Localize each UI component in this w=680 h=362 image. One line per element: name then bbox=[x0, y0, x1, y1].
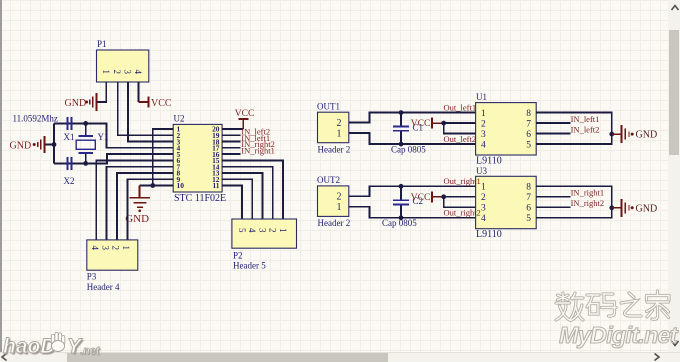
svg-text:IN_left2: IN_left2 bbox=[571, 124, 600, 134]
svg-text:1: 1 bbox=[101, 70, 111, 75]
net label IN_right1 bbox=[571, 188, 605, 198]
svg-text:GND: GND bbox=[10, 140, 32, 151]
wire OUT1 pin2 to U1 pin1 net Out_left1 bbox=[349, 113, 476, 123]
svg-text:Out_left1: Out_left1 bbox=[444, 102, 477, 112]
svg-text:VCC: VCC bbox=[235, 109, 255, 119]
net label IN_left2 bbox=[571, 124, 600, 134]
node junction GND tap U3 bbox=[609, 205, 614, 210]
svg-text:2: 2 bbox=[268, 228, 278, 233]
svg-text:P1: P1 bbox=[97, 39, 107, 49]
svg-text:GND: GND bbox=[65, 98, 87, 109]
capacitor X2 bbox=[64, 157, 75, 186]
net label IN_left2 bbox=[241, 127, 270, 137]
svg-text:IN_left1: IN_left1 bbox=[571, 114, 600, 124]
svg-text:IN_right1: IN_right1 bbox=[241, 145, 275, 155]
net label Out_left2 bbox=[444, 134, 477, 144]
svg-text:Header 4: Header 4 bbox=[87, 282, 120, 292]
connector P2 (Header 5) bbox=[232, 219, 297, 271]
wire U2 pin18 net IN_left1 bbox=[222, 141, 241, 143]
svg-text:Header 2: Header 2 bbox=[318, 218, 351, 228]
svg-text:GND: GND bbox=[636, 203, 658, 214]
svg-text:5: 5 bbox=[526, 140, 531, 150]
svg-text:1: 1 bbox=[481, 183, 486, 193]
svg-text:P3: P3 bbox=[87, 272, 97, 282]
svg-text:11: 11 bbox=[213, 181, 220, 190]
connector P1 (Header 4) bbox=[97, 39, 149, 82]
svg-text:Header 5: Header 5 bbox=[233, 261, 266, 271]
wire U3 pin8 pin5 to GND bbox=[536, 186, 612, 218]
wire U1 pin8 pin5 to GND bbox=[536, 113, 612, 145]
wire GND to crystal net bbox=[45, 144, 54, 146]
svg-text:2: 2 bbox=[337, 118, 342, 129]
wire U2 pin19 net IN_left2 bbox=[222, 134, 241, 136]
scrollbar horizontal bbox=[0, 352, 680, 362]
node junction C1 top bbox=[399, 110, 404, 115]
svg-text:U3: U3 bbox=[476, 166, 487, 176]
svg-text:OUT1: OUT1 bbox=[317, 101, 340, 111]
svg-text:1: 1 bbox=[337, 202, 342, 213]
wire P1 pin4 to VCC bbox=[138, 82, 140, 102]
svg-text:GND: GND bbox=[636, 130, 658, 141]
svg-text:2: 2 bbox=[481, 193, 486, 203]
wire OUT1 pin1 to U1 pin4 net Out_left2 bbox=[349, 133, 476, 144]
svg-text:Out_left2: Out_left2 bbox=[444, 134, 477, 144]
wire U2 pin15 to P2 pin1 bbox=[222, 160, 283, 219]
svg-text:VCC: VCC bbox=[151, 98, 172, 109]
wire P1 pin3 to U2 pin3 bbox=[128, 82, 173, 142]
node junction C2 top bbox=[399, 184, 404, 189]
svg-text:4: 4 bbox=[247, 228, 257, 233]
svg-text:8: 8 bbox=[526, 109, 531, 119]
svg-text:VCC: VCC bbox=[411, 119, 431, 129]
svg-text:3: 3 bbox=[258, 228, 268, 233]
svg-text:10: 10 bbox=[177, 181, 185, 190]
net label IN_right1 bbox=[241, 145, 275, 155]
wire U2 pin20 to VCC bbox=[222, 128, 243, 130]
node junction VCC tap U1 bbox=[441, 121, 446, 126]
svg-text:VCC: VCC bbox=[411, 193, 431, 203]
wire U1 pin7 net IN_left1 bbox=[536, 122, 570, 124]
node junction GND tap U1 bbox=[609, 132, 614, 137]
wire U1 pin6 net IN_left2 bbox=[536, 133, 570, 135]
svg-text:7: 7 bbox=[526, 119, 531, 129]
scrollbar vertical bbox=[668, 0, 680, 352]
ground GND below U2 bbox=[125, 186, 150, 226]
svg-text:Out_right2: Out_right2 bbox=[444, 208, 481, 218]
svg-text:P2: P2 bbox=[233, 251, 243, 261]
svg-text:U2: U2 bbox=[174, 114, 185, 124]
watermark haoDIY.net bbox=[3, 335, 56, 359]
svg-text:1: 1 bbox=[481, 109, 486, 119]
wire U2 pin17 net IN_right2 bbox=[222, 147, 241, 149]
svg-text:6: 6 bbox=[526, 130, 531, 140]
net label IN_right2 bbox=[571, 198, 605, 208]
svg-text:L9110: L9110 bbox=[476, 156, 502, 167]
svg-text:7: 7 bbox=[526, 193, 531, 203]
svg-text:1: 1 bbox=[121, 246, 131, 251]
wire OUT2 pin2 to U3 pin1 net Out_right1 bbox=[349, 186, 476, 196]
power VCC at U1 bbox=[411, 118, 444, 130]
svg-text:U1: U1 bbox=[476, 92, 487, 102]
svg-text:Out_right1: Out_right1 bbox=[444, 176, 481, 186]
svg-text:STC 11F02E: STC 11F02E bbox=[174, 193, 226, 204]
wire crystal bottom to U2 pin5 bbox=[54, 154, 173, 163]
wire U2 pin1 down to pin10 net bbox=[153, 129, 173, 186]
ground GND at U3 bbox=[612, 199, 657, 217]
svg-text:X1: X1 bbox=[64, 132, 75, 142]
wire crystal left vertical bbox=[53, 123, 55, 163]
wire U2 pin11 to P2 pin5 bbox=[222, 186, 242, 220]
wire U2 pin9 to P3 pin1 bbox=[127, 179, 173, 240]
net label IN_right2 bbox=[241, 139, 275, 149]
wire P1 pin1 to GND bbox=[97, 82, 107, 102]
power VCC at U3 bbox=[411, 191, 444, 203]
wire U2 pin10 to ground bbox=[140, 185, 174, 187]
svg-text:4: 4 bbox=[133, 70, 143, 75]
wire U2 pin12 to P2 pin4 bbox=[222, 179, 252, 219]
wire VCC to U1 pins 2 and 3 bbox=[444, 123, 476, 134]
crystal Y1 bbox=[76, 123, 108, 163]
wire U2 pin8 to P3 pin2 bbox=[117, 173, 173, 240]
wire U2 pin14 to P2 pin2 bbox=[222, 167, 273, 219]
wire U2 pin16 net IN_right1 bbox=[222, 153, 241, 155]
wire OUT2 pin1 to U3 pin4 net Out_right2 bbox=[349, 207, 476, 218]
net label IN_left1 bbox=[241, 133, 270, 143]
svg-text:4: 4 bbox=[481, 214, 486, 224]
svg-text:Y1: Y1 bbox=[98, 132, 109, 142]
ground GND at U1 bbox=[612, 125, 657, 143]
driver U3 L9110 bbox=[476, 166, 537, 240]
wire U2 pin7 to P3 pin3 bbox=[107, 167, 174, 240]
svg-text:5: 5 bbox=[526, 214, 531, 224]
wire U2 pin13 to P2 pin3 bbox=[222, 173, 262, 219]
capacitor C2 Cap 0805 bbox=[382, 186, 423, 228]
svg-text:3: 3 bbox=[100, 246, 110, 251]
svg-text:Header 2: Header 2 bbox=[318, 144, 351, 154]
svg-text:IN_right2: IN_right2 bbox=[571, 198, 605, 208]
wire crystal top to U2 pin4 bbox=[54, 123, 173, 147]
wire VCC to U3 pins 2 and 3 bbox=[444, 197, 476, 208]
power VCC at U2 bbox=[235, 109, 255, 129]
svg-text:L9110: L9110 bbox=[476, 229, 502, 240]
svg-text:2: 2 bbox=[337, 192, 342, 203]
watermark MyDigit.net bbox=[559, 322, 677, 349]
svg-text:3: 3 bbox=[123, 70, 133, 75]
connector OUT2 (Header 2) bbox=[317, 175, 350, 228]
svg-text:X2: X2 bbox=[64, 176, 75, 186]
svg-text:3: 3 bbox=[481, 130, 486, 140]
ground GND at crystal bbox=[10, 136, 45, 153]
svg-text:Cap 0805: Cap 0805 bbox=[391, 144, 426, 154]
power VCC at P1 bbox=[139, 97, 172, 110]
wire U3 pin7 net IN_right1 bbox=[536, 196, 570, 198]
svg-text:2: 2 bbox=[112, 70, 122, 75]
svg-text:1: 1 bbox=[278, 228, 288, 233]
svg-text:OUT2: OUT2 bbox=[317, 175, 340, 185]
capacitor X1 bbox=[64, 117, 75, 142]
label 11.0592Mhz bbox=[13, 114, 58, 124]
svg-text:IN_right1: IN_right1 bbox=[571, 188, 605, 198]
svg-text:5: 5 bbox=[237, 228, 247, 233]
net label Out_left1 bbox=[444, 102, 477, 112]
left border bbox=[0, 0, 2, 352]
svg-text:3: 3 bbox=[481, 204, 486, 214]
capacitor C1 Cap 0805 bbox=[391, 113, 426, 155]
svg-text:8: 8 bbox=[526, 183, 531, 193]
driver U1 L9110 bbox=[476, 92, 537, 166]
node junction crystal top bbox=[83, 121, 88, 126]
wire U2 pin6 to P3 pin4 bbox=[96, 160, 173, 240]
svg-text:6: 6 bbox=[526, 204, 531, 214]
node junction VCC tap U3 bbox=[441, 194, 446, 199]
net label Out_right2 bbox=[444, 208, 481, 218]
svg-text:GND: GND bbox=[125, 213, 149, 225]
svg-text:1: 1 bbox=[337, 128, 342, 139]
svg-text:4: 4 bbox=[90, 246, 100, 251]
ground GND at P1 bbox=[65, 93, 97, 111]
wire U3 pin6 net IN_right2 bbox=[536, 206, 570, 208]
wire P1 pin2 to U2 pin2 bbox=[118, 82, 173, 135]
node junction crystal bottom bbox=[83, 161, 88, 166]
node junction at GND tap bbox=[52, 142, 57, 147]
node junction C1 bottom bbox=[399, 142, 404, 147]
node junction pin10 tap bbox=[150, 183, 155, 188]
net label IN_left1 bbox=[571, 114, 600, 124]
watermark chinese logo bbox=[552, 288, 680, 330]
svg-text:2: 2 bbox=[111, 246, 121, 251]
svg-text:2: 2 bbox=[481, 119, 486, 129]
mcu U2 STC 11F02E bbox=[173, 114, 226, 205]
svg-text:11.0592Mhz: 11.0592Mhz bbox=[13, 114, 58, 124]
net label Out_right1 bbox=[444, 176, 481, 186]
node junction C2 bottom bbox=[399, 215, 404, 220]
svg-text:4: 4 bbox=[481, 140, 486, 150]
connector OUT1 (Header 2) bbox=[317, 101, 350, 154]
connector P3 (Header 4) bbox=[87, 240, 138, 292]
